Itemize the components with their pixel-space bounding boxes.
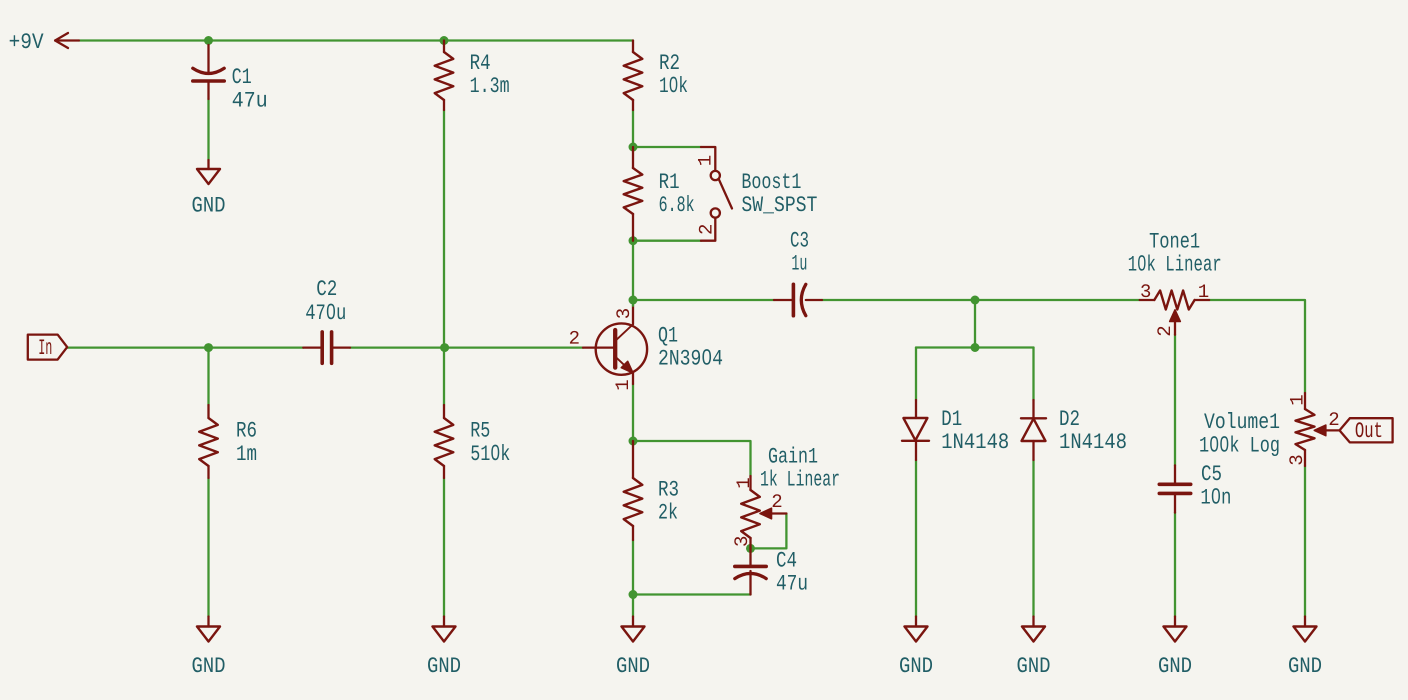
wire emitter to node E bbox=[632, 384, 634, 441]
label R4 ref bbox=[471, 55, 490, 69]
resistor R3 bbox=[624, 441, 643, 540]
node B junction (C2/R4/R5/base) bbox=[440, 343, 449, 352]
node +9V/C1 junction bbox=[204, 36, 213, 45]
label GND (D2) bbox=[1018, 657, 1050, 672]
label C1 value bbox=[233, 92, 266, 107]
label D2 value bbox=[1060, 433, 1125, 448]
label D1 ref bbox=[943, 411, 962, 425]
label C3 value bbox=[792, 255, 806, 270]
label Q1 ref bbox=[659, 327, 677, 346]
transistor Q1 2N3904 bbox=[583, 300, 647, 384]
ground (R6) bbox=[197, 617, 220, 642]
wire node E to Gain1 pin1 bbox=[633, 441, 751, 476]
label GND (D1) bbox=[900, 657, 932, 672]
wire R4 to node B vertical bbox=[443, 110, 445, 348]
node D1/D2 junction bbox=[971, 343, 980, 352]
pin 2 (Gain1) bbox=[773, 494, 782, 507]
wire switch bottom bbox=[633, 240, 701, 242]
diode D2 1N4148 bbox=[1021, 400, 1046, 460]
label R6 value bbox=[237, 446, 256, 460]
pin 3 (Tone1) bbox=[1141, 284, 1150, 297]
capacitor C1 bbox=[193, 45, 224, 99]
label R1 ref bbox=[660, 174, 679, 188]
wire D1 top bbox=[915, 348, 917, 401]
capacitor C3 bbox=[774, 284, 822, 315]
wire C1 lower segment bbox=[207, 99, 209, 160]
label C2 value bbox=[306, 304, 345, 320]
wire +9V rail bbox=[79, 39, 633, 41]
wire switch top bbox=[633, 146, 701, 148]
label Q1 value bbox=[659, 349, 722, 365]
label GND (R5) bbox=[428, 657, 460, 672]
wire C1 top stub bbox=[207, 41, 209, 46]
node F junction (R3/C4/GND) bbox=[629, 590, 638, 599]
pin 1 (Q1 emitter) bbox=[615, 380, 628, 389]
pin 3 (Gain1) bbox=[734, 537, 747, 546]
wire Tone1 to Volume1 corner bbox=[1209, 300, 1305, 393]
potentiometer Tone1 bbox=[1140, 291, 1209, 335]
wire R2 bottom to node R1-top bbox=[632, 110, 634, 147]
label R6 ref bbox=[237, 422, 255, 437]
pin 2 (Volume1) bbox=[1330, 412, 1339, 425]
wire In to node A bbox=[67, 346, 303, 348]
node collector junction bbox=[629, 296, 638, 305]
wire node F to GND bbox=[632, 595, 634, 617]
label C1 ref bbox=[233, 68, 251, 83]
label C4 ref bbox=[777, 552, 796, 567]
ground (C1) bbox=[197, 160, 220, 184]
label GND (R6) bbox=[193, 657, 225, 672]
node R2/R1/switch junction bbox=[629, 143, 638, 152]
label C4 value bbox=[777, 575, 807, 590]
resistor R2 bbox=[624, 41, 643, 111]
ground (C5) bbox=[1164, 617, 1187, 642]
node +9V/R4 junction bbox=[440, 36, 449, 45]
label Tone1 ref bbox=[1150, 233, 1200, 248]
label R5 value bbox=[471, 444, 509, 460]
wire node A down to R6 bbox=[207, 348, 209, 405]
label Boost1 value bbox=[742, 196, 817, 213]
label Tone1 value bbox=[1129, 255, 1220, 271]
potentiometer Volume1 bbox=[1296, 393, 1341, 466]
label R1 value bbox=[660, 195, 694, 211]
capacitor C4 bbox=[735, 548, 766, 594]
capacitor C2 bbox=[303, 332, 350, 363]
pin 1 (Boost1) bbox=[698, 156, 711, 165]
wire C4 bottom to node F bbox=[633, 593, 751, 595]
wire diode node vertical bbox=[974, 300, 976, 348]
label Volume1 ref bbox=[1204, 412, 1279, 428]
global label In bbox=[28, 335, 67, 360]
wire D2 to GND bbox=[1032, 460, 1034, 617]
potentiometer Gain1 bbox=[741, 476, 786, 548]
ground (D2) bbox=[1022, 617, 1045, 642]
label C5 ref bbox=[1202, 465, 1221, 480]
label R3 ref bbox=[659, 481, 678, 496]
wire C3 to diode node bbox=[822, 299, 1140, 301]
pin 1 (Tone1) bbox=[1199, 284, 1208, 297]
wire Gain1 wiper loop bbox=[751, 514, 787, 549]
switch Boost1 SW_SPST bbox=[701, 147, 732, 241]
label D1 value bbox=[943, 433, 1008, 448]
wire R5 top bbox=[443, 348, 445, 405]
label Boost1 ref bbox=[743, 173, 801, 188]
wire Volume1 to GND bbox=[1304, 466, 1306, 617]
ground (R3/Q1) bbox=[622, 617, 645, 642]
label Volume1 value bbox=[1200, 436, 1278, 456]
ground (Volume1) bbox=[1294, 617, 1317, 642]
label GND (C1) bbox=[193, 197, 225, 212]
wire C2 to node B bbox=[350, 346, 445, 348]
wire diode node horizontal bbox=[916, 346, 1034, 348]
node R1/switch bottom junction bbox=[629, 236, 638, 245]
label D2 ref bbox=[1060, 410, 1078, 425]
node E junction (emitter/R3/Gain1) bbox=[629, 437, 638, 446]
ground (R5) bbox=[433, 617, 456, 642]
wire R6 to GND bbox=[207, 478, 209, 617]
resistor R4 bbox=[435, 41, 454, 111]
label GND (R3/Q1) bbox=[617, 657, 649, 672]
wire Tone1 wiper to C5 bbox=[1174, 335, 1176, 466]
label Gain1 value bbox=[761, 470, 839, 486]
pin 3 (Volume1) bbox=[1289, 456, 1302, 465]
wire collector node to C3 bbox=[633, 299, 774, 301]
wire node B to Q1 base bbox=[445, 346, 583, 348]
label C5 value bbox=[1202, 488, 1230, 504]
power symbol +9V arrow bbox=[55, 33, 79, 48]
label C3 ref bbox=[791, 232, 808, 247]
label GND (Volume1) bbox=[1289, 657, 1321, 672]
wire node R1-bottom to collector node bbox=[632, 241, 634, 300]
pin 3 (Q1 collector) bbox=[616, 309, 629, 318]
wire R3 bottom to node F bbox=[632, 540, 634, 595]
net label +9V bbox=[10, 33, 44, 48]
wire D1 to GND bbox=[915, 460, 917, 617]
pin 2 (Q1 base) bbox=[570, 331, 579, 344]
node diode tap junction bbox=[971, 296, 980, 305]
node A junction (In/R6/C2) bbox=[204, 343, 213, 352]
wire C5 to GND bbox=[1174, 513, 1176, 617]
wire R5 to GND bbox=[443, 478, 445, 617]
label Gain1 ref bbox=[769, 447, 817, 463]
label R2 ref bbox=[660, 54, 678, 69]
pin 2 (Tone1) bbox=[1157, 327, 1170, 336]
pin 1 (Volume1) bbox=[1290, 395, 1303, 404]
diode D1 1N4148 bbox=[902, 400, 929, 460]
label C2 ref bbox=[317, 280, 336, 295]
wire D2 top bbox=[1032, 348, 1034, 401]
node Gain1/C4 junction bbox=[746, 544, 755, 553]
resistor R6 bbox=[199, 405, 218, 478]
resistor R1 bbox=[624, 147, 643, 241]
label R2 value bbox=[660, 76, 687, 92]
label R4 value bbox=[471, 77, 509, 92]
pin 1 (Gain1) bbox=[736, 478, 749, 487]
global label Out bbox=[1340, 418, 1393, 442]
pin 2 (Boost1) bbox=[699, 225, 712, 234]
resistor R5 bbox=[435, 405, 454, 478]
capacitor C5 bbox=[1159, 465, 1190, 512]
label R5 ref bbox=[472, 422, 490, 437]
label R3 value bbox=[659, 503, 677, 519]
ground (D1) bbox=[905, 617, 928, 642]
label GND (C5) bbox=[1159, 657, 1191, 672]
